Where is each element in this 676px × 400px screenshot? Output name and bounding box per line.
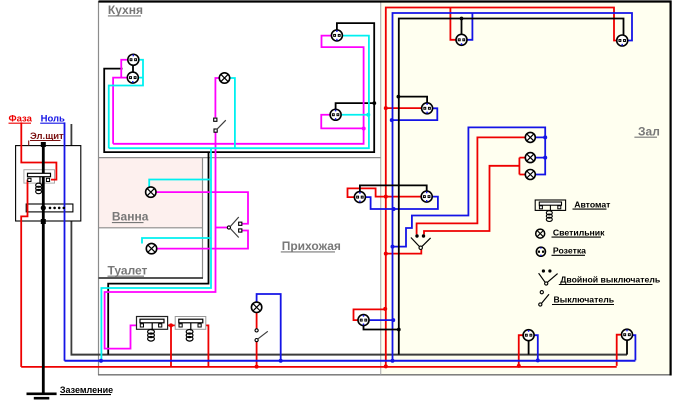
socket XS11 (hall bottom left)	[523, 330, 534, 341]
wire: red branch to socket XS10	[354, 309, 386, 320]
wire: cyan kitchen lamp drop	[230, 78, 235, 148]
lamp EL1 (bathroom)	[146, 187, 156, 197]
wire: red branch to double switch SA3 vertex	[386, 250, 422, 254]
lamp EL3 (hallway)	[251, 302, 261, 312]
wire: main black riser (Зал)	[399, 19, 624, 355]
wall: apartment left	[98, 1, 100, 375]
wire: black link kitchen socket pair	[132, 65, 134, 72]
wire: cyan kitchen bus	[109, 36, 369, 149]
wire: red riser breaker QF1	[162, 325, 179, 367]
double switch SA2 (hallway)	[227, 217, 242, 238]
wire: PE gray riser from panel	[70, 124, 72, 355]
wire: PE gray bottom bus	[71, 354, 628, 356]
wire: magenta kitchen bus	[113, 36, 364, 144]
wire: magenta kitchen lamp / switch SA1	[215, 78, 219, 228]
label: Прихожая	[281, 239, 341, 253]
panel bus bar box	[26, 204, 73, 212]
wire: black link sockets XS8-XS9	[360, 185, 427, 191]
wire: black hallway drop to PE bus	[108, 152, 208, 355]
wire: red switch SA3 line 1 to lamp EL4	[417, 137, 526, 234]
ground wire (thick)	[42, 144, 45, 393]
socket XS6 (hall top right)	[617, 35, 628, 46]
wire: black branch socket XS7	[399, 97, 427, 103]
label: Светильник	[552, 227, 606, 237]
wire: blue bottom bus	[65, 360, 636, 362]
socket XS12 (hall bottom right)	[622, 329, 633, 340]
wire: magenta drop to breaker QF1	[105, 228, 216, 349]
switch SA1 (kitchen)	[214, 118, 226, 132]
label: Эл.щит	[29, 131, 64, 146]
lamp EL4 (hall top)	[525, 132, 535, 142]
wire: cyan branch socket XS4	[341, 114, 369, 116]
lamp EL5 (hall middle)	[525, 153, 535, 163]
wire: red riser breaker QF2	[201, 325, 209, 367]
svg-text:Розетка: Розетка	[553, 246, 586, 256]
svg-text:Ванна: Ванна	[112, 210, 149, 224]
lamp EL0 (kitchen)	[219, 73, 229, 83]
wire: black stub socket XS12	[626, 340, 628, 355]
wire: black branch socket XS5	[461, 19, 463, 35]
wire: red bottom bus	[21, 366, 617, 368]
wire: blue riser socket XS11	[534, 335, 538, 360]
label: Розетка	[552, 246, 587, 256]
legend: lamp symbol	[536, 229, 545, 238]
wire: red riser socket XS11	[519, 335, 523, 366]
wire: blue feed to hall lamps	[393, 127, 546, 246]
socket XS5 (hall top left)	[456, 34, 467, 45]
room fill: Ванна (light pink)	[99, 157, 203, 227]
wire: phase red from Фаза label into panel	[21, 122, 56, 179]
wire: blue branch socket XS10	[370, 319, 393, 321]
legend: double switch symbol	[539, 269, 558, 285]
double switch SA3 (hall Зал)	[411, 234, 431, 249]
wire: neutral blue from Ноль label to bottom blue bus	[64, 122, 66, 360]
socket XS2 (kitchen pair bottom)	[127, 72, 138, 83]
node: panel top terminal	[41, 142, 46, 147]
wire: magenta branch to double switch SA2 vertex	[216, 227, 228, 229]
wire: black kitchen feed loop	[104, 23, 374, 152]
wire: black stub socket XS11	[528, 341, 530, 355]
wire: magenta kitchen socket pair loop	[113, 60, 128, 144]
label: Заземление	[60, 385, 113, 395]
socket XS9 (hall mid lower)	[421, 191, 432, 202]
wall: toilet bottom	[99, 277, 204, 279]
wall: apartment right (black)	[669, 1, 671, 376]
wire: main red riser in hall (Зал)	[386, 8, 617, 367]
legend: socket symbol	[536, 247, 545, 256]
wall: kitchen bottom	[99, 157, 381, 159]
wire: red branch to socket XS7	[386, 107, 422, 109]
label: Ванна	[112, 210, 149, 224]
svg-text:Туалет: Туалет	[108, 263, 148, 277]
socket XS8 (hallway Прихожая)	[354, 192, 365, 203]
breaker QF1 (hallway)	[137, 317, 168, 342]
bus bar small dots	[49, 207, 65, 210]
svg-text:Двойной выключатель: Двойной выключатель	[560, 275, 660, 285]
lamp EL6 (hall bottom)	[525, 170, 535, 180]
wire: blue riser socket XS12	[633, 335, 636, 360]
legend: breaker symbol	[535, 200, 565, 221]
wire: black branch socket XS4	[336, 103, 375, 109]
wall: bathroom block right	[202, 158, 204, 278]
wire: magenta toilet lamp EL2 line	[157, 231, 248, 249]
socket XS3 (kitchen right top)	[331, 30, 342, 41]
wire: red hall lamp/switch drop	[256, 313, 258, 367]
wire: blue hall lamp loop	[257, 294, 281, 361]
wire: black branch socket XS10	[364, 326, 399, 330]
svg-text:Выключатель: Выключатель	[554, 295, 615, 305]
wire: red riser socket XS12	[617, 335, 622, 366]
wire: phase red from breaker QF0 to bottom red bus	[21, 181, 29, 367]
breaker QF2 (hallway)	[175, 317, 206, 342]
label: Фаза	[9, 114, 33, 125]
wire: magenta branch socket XS4	[321, 115, 363, 129]
wire: red branch to socket XS8 / XS9	[348, 188, 422, 197]
wall: bath/toilet divider	[99, 227, 203, 229]
label: Двойной выключатель	[559, 275, 660, 285]
label: Кухня	[108, 3, 143, 17]
breaker QF0 internals (panel)	[28, 173, 51, 193]
wire: blue loop sockets XS8/XS9	[366, 197, 438, 209]
switch SA4 (hallway near lamp EL3)	[255, 329, 268, 342]
label: Зал	[634, 124, 659, 138]
wire: blue loop socket XS7	[393, 108, 438, 120]
wire: red branch to socket XS5	[450, 8, 456, 40]
node: bus bar main dot	[41, 205, 46, 210]
wall: apartment top (black)	[99, 0, 672, 2]
label: Выключатель	[552, 295, 614, 305]
svg-text:Автомат: Автомат	[574, 199, 611, 209]
wire: cyan hallway drop / bath-toilet lamps	[101, 148, 211, 361]
ground symbol	[27, 394, 57, 398]
svg-text:Заземление: Заземление	[60, 385, 113, 395]
socket XS4 (kitchen right bottom)	[330, 109, 341, 120]
breaker QF0 box (in panel)	[24, 170, 55, 183]
svg-text:Зал: Зал	[638, 124, 660, 138]
room fill: Зал (ivory)	[381, 2, 671, 376]
node: panel bottom terminal	[41, 219, 46, 224]
node: junction dots	[99, 17, 547, 369]
wire: magenta bath lamp EL1 line	[156, 192, 248, 224]
wire: cyan kitchen socket pair loop	[109, 60, 143, 148]
label: Автомат	[573, 199, 612, 209]
svg-text:Светильник: Светильник	[553, 227, 605, 237]
socket XS1 (kitchen pair top)	[128, 54, 139, 65]
panel box (Эл.щит)	[16, 146, 81, 221]
wall: hallway/hall divider	[380, 2, 382, 375]
label: Ноль	[40, 114, 65, 125]
wall: apartment bottom	[98, 374, 672, 376]
svg-text:Кухня: Кухня	[108, 3, 143, 17]
socket XS7 (hall mid upper)	[422, 103, 433, 114]
wire: main blue riser (Зал)	[393, 13, 633, 361]
socket XS10 (hallway bottom)	[358, 315, 369, 326]
label: Туалет	[108, 263, 148, 277]
wire: blue branch socket XS5	[467, 13, 473, 40]
legend: switch symbol	[539, 291, 549, 307]
wire: red switch SA3 line 2 to lamps EL5 EL6	[424, 158, 525, 235]
lamp EL2 (toilet)	[146, 243, 156, 253]
svg-text:Прихожая: Прихожая	[282, 239, 341, 253]
